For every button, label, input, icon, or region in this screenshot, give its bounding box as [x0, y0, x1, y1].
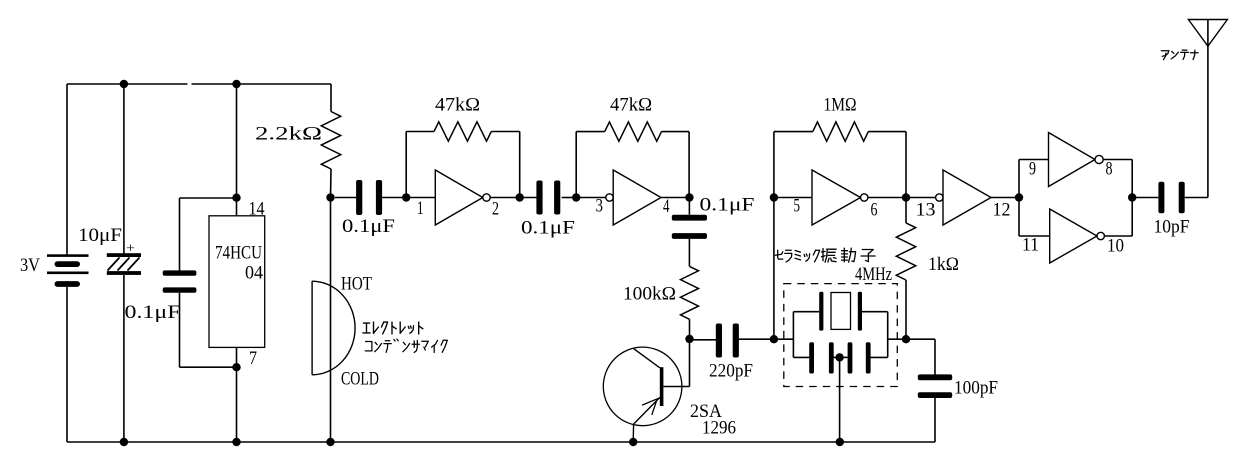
svg-text:1: 1: [417, 199, 424, 219]
svg-text:0.1μF: 0.1μF: [125, 303, 181, 323]
svg-text:3: 3: [596, 197, 604, 217]
svg-text:10μF: 10μF: [78, 226, 122, 246]
svg-text:0.1μF: 0.1μF: [521, 219, 575, 239]
svg-text:6: 6: [871, 201, 878, 221]
svg-text:0.1μF: 0.1μF: [342, 217, 395, 237]
svg-text:10: 10: [1107, 237, 1124, 257]
svg-text:74HCU: 74HCU: [215, 244, 262, 264]
svg-text:11: 11: [1022, 236, 1039, 256]
svg-text:COLD: COLD: [341, 370, 379, 390]
svg-text:HOT: HOT: [341, 275, 372, 295]
svg-text:4: 4: [663, 197, 670, 217]
svg-text:14: 14: [249, 200, 265, 220]
svg-text:5: 5: [794, 197, 801, 217]
svg-text:47kΩ: 47kΩ: [610, 96, 652, 116]
svg-text:220pF: 220pF: [709, 362, 753, 382]
svg-text:1MΩ: 1MΩ: [824, 96, 857, 116]
svg-text:10pF: 10pF: [1154, 218, 1190, 238]
svg-text:2.2kΩ: 2.2kΩ: [255, 125, 322, 145]
svg-text:100kΩ: 100kΩ: [623, 285, 676, 305]
svg-text:8: 8: [1106, 160, 1113, 180]
svg-text:3V: 3V: [20, 256, 41, 276]
svg-text:100pF: 100pF: [954, 379, 998, 399]
svg-text:1kΩ: 1kΩ: [928, 255, 959, 275]
svg-text:9: 9: [1029, 160, 1036, 180]
svg-text:04: 04: [245, 264, 263, 284]
svg-text:47kΩ: 47kΩ: [435, 96, 480, 116]
svg-text:+: +: [126, 242, 135, 257]
svg-text:2: 2: [492, 200, 499, 220]
svg-text:7: 7: [249, 349, 257, 369]
svg-text:1296: 1296: [702, 419, 736, 439]
svg-text:13: 13: [916, 201, 936, 221]
svg-text:12: 12: [993, 201, 1011, 221]
svg-text:0.1μF: 0.1μF: [700, 196, 755, 216]
svg-text:4MHz: 4MHz: [855, 265, 892, 285]
